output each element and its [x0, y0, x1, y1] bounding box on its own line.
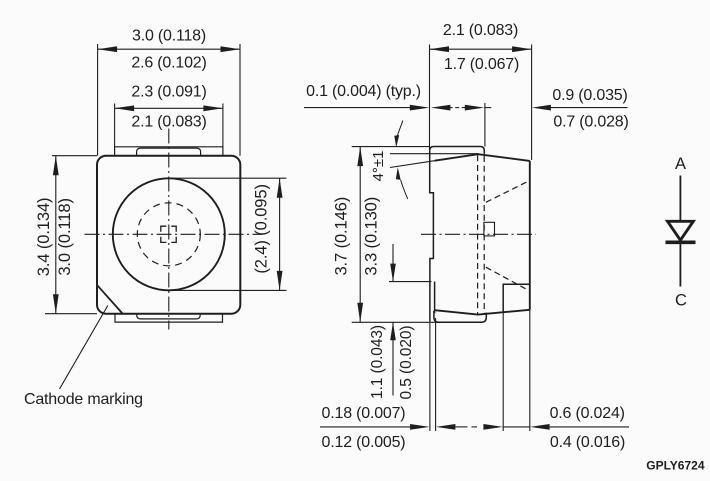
dimension 0.9/0.7: arrow and dimension line [532, 105, 628, 111]
dimension text 1.7 (0.067) side [444, 56, 519, 73]
svg-text:2.1 (0.083): 2.1 (0.083) [443, 22, 518, 39]
dimension text 0.12 (0.005) [322, 434, 406, 451]
svg-text:0.6 (0.024): 0.6 (0.024) [550, 405, 625, 422]
dimension text 0.1 (0.004) (typ.) [306, 83, 421, 100]
svg-text:0.5 (0.020): 0.5 (0.020) [398, 326, 415, 400]
side view: bottom face [435, 310, 530, 315]
svg-text:1.7 (0.067): 1.7 (0.067) [444, 56, 519, 73]
svg-text:2.1 (0.083): 2.1 (0.083) [131, 114, 206, 131]
diode symbol: anode lead wire [679, 176, 681, 221]
dimension 3.7/3.3 side: dimension line with arrows [357, 147, 363, 323]
document number GPLY6724 [646, 459, 705, 473]
svg-text:0.1 (0.004) (typ.): 0.1 (0.004) (typ.) [306, 83, 421, 100]
dimension text 3.4 (0.134) rotated [35, 198, 53, 277]
dimension (2.4) lens: dimension line with arrows [277, 178, 283, 290]
dimension 2.1/1.7 side: dimension line with arrows [430, 46, 532, 52]
side view: top band bottom edge / angle reference line [390, 153, 479, 155]
side view: hidden dashed diagonal bottom [486, 267, 528, 290]
dimension text 2.1 (0.083) side [443, 22, 518, 39]
leader line to cathode marking label [60, 306, 108, 390]
dimension text 3.0 (0.118) rotated [56, 198, 74, 275]
diode symbol: cathode lead wire [679, 243, 681, 287]
dimension 3.4/3.0 height: dimension line with arrows [53, 156, 59, 314]
dimension text 0.6 (0.024) [550, 405, 625, 422]
dimension 2.1/1.7 side: extension lines [430, 45, 532, 161]
side view: left face and lead profile [430, 151, 435, 322]
svg-text:2.3 (0.091): 2.3 (0.091) [131, 83, 206, 100]
front view: dashed inner circle [137, 203, 200, 266]
dimension 0.18/0.12: extension lines [430, 318, 436, 431]
svg-text:0.4 (0.016): 0.4 (0.016) [550, 434, 625, 451]
svg-text:A: A [675, 155, 686, 173]
diode symbol: anode label A [675, 155, 686, 173]
side view: top face roof [435, 154, 530, 161]
dimension text 0.5 (0.020) rotated [398, 326, 415, 400]
dimension 0.1 typ: dimension line and facing arrows [304, 105, 459, 111]
dimension 3.7/3.3 side: extension lines [352, 147, 451, 323]
dimension 3.4/3.0 height: extension lines [45, 156, 97, 314]
svg-text:GPLY6724: GPLY6724 [646, 459, 705, 473]
dimension 1.1/0.5: extension lines [389, 281, 432, 283]
front view: lens circle [113, 178, 225, 290]
dimension 3.0/2.6 width: dimension line with arrows [98, 46, 240, 52]
side view: horizontal centerline [421, 233, 536, 235]
dimension 0.6/0.4: outside arrows and dimension line [483, 424, 629, 430]
side view: bottom-right lead notch [503, 284, 530, 312]
svg-text:0.18 (0.007): 0.18 (0.007) [322, 405, 406, 422]
dimension text 0.4 (0.016) [550, 434, 625, 451]
front view: bottom lead bump [137, 314, 201, 319]
front view: cathode chamfer [97, 285, 122, 313]
side view: top lead band [430, 147, 485, 154]
dimension text 3.7 (0.146) rotated [333, 197, 351, 276]
label Cathode marking [24, 391, 143, 408]
front view: package body [97, 156, 240, 314]
front view: horizontal centerline [85, 233, 263, 235]
dimension 1.1/0.5: outside arrows [390, 244, 396, 396]
svg-text:3.7 (0.146): 3.7 (0.146) [333, 197, 351, 276]
dimension text 1.1 (0.043) rotated [369, 325, 386, 399]
svg-text:3.4 (0.134): 3.4 (0.134) [35, 198, 53, 277]
side view: hidden dashed line left [477, 155, 479, 313]
dimension text 2.1 (0.083) [131, 114, 206, 131]
dimension 0.18/0.12: dimension line with outside arrows [320, 424, 477, 430]
angle 4 deg: slope extension line [390, 161, 435, 168]
dimension text 0.9 (0.035) [552, 87, 627, 104]
dimension 2.3/2.1 width: dimension line with arrows [115, 105, 223, 111]
dimension text 3.0 (0.118) [132, 28, 206, 45]
svg-text:0.7 (0.028): 0.7 (0.028) [553, 114, 628, 131]
svg-text:0.9 (0.035): 0.9 (0.035) [552, 87, 627, 104]
front view: vertical centerline [168, 129, 170, 330]
angle 4 deg: lower leader arrow [396, 167, 408, 199]
front view: bottom lead tab [115, 314, 223, 322]
front view: top lead tab [115, 147, 223, 156]
svg-text:(2.4) (0.095): (2.4) (0.095) [253, 184, 271, 274]
dimension text 2.3 (0.091) [131, 83, 206, 100]
svg-text:C: C [675, 292, 687, 310]
dimension 2.3/2.1 width: extension lines [115, 104, 223, 147]
svg-text:4°±1: 4°±1 [370, 151, 387, 182]
dimension (2.4) lens: extension lines [167, 178, 287, 290]
svg-text:2.6 (0.102): 2.6 (0.102) [131, 55, 206, 72]
dimension text (2.4) (0.095) rotated [253, 184, 271, 274]
front view: center mark square [161, 226, 176, 242]
svg-text:3.3 (0.130): 3.3 (0.130) [362, 197, 380, 276]
svg-text:0.12 (0.005): 0.12 (0.005) [322, 434, 406, 451]
diode symbol: cathode label C [675, 292, 687, 310]
dimension text 3.3 (0.130) rotated [362, 197, 380, 276]
dimension 3.0/2.6 width: extension lines [98, 44, 240, 156]
front view: top lead bump [137, 148, 201, 156]
side view: hidden dashed line right [483, 156, 485, 314]
diode symbol: triangle [668, 221, 694, 240]
side view: hidden dashed diagonal top [486, 181, 528, 202]
side view: center mark square [484, 222, 495, 236]
svg-text:3.0 (0.118): 3.0 (0.118) [132, 28, 206, 45]
svg-text:Cathode marking: Cathode marking [24, 391, 143, 408]
svg-text:1.1 (0.043): 1.1 (0.043) [369, 325, 386, 399]
dimension text 0.18 (0.007) [322, 405, 406, 422]
dimension text 2.6 (0.102) [131, 55, 206, 72]
dimension 0.6/0.4: extension lines [503, 310, 530, 431]
diode symbol: cathode bar [666, 241, 696, 245]
dimension 1.7 right arrow and extension [462, 103, 492, 147]
side view: bottom lead band [434, 311, 486, 322]
angle text 4 deg plus minus 1 rotated [370, 151, 387, 182]
svg-text:3.0 (0.118): 3.0 (0.118) [56, 198, 74, 275]
angle 4 deg: upper leader arrow [394, 121, 403, 148]
dimension text 0.7 (0.028) [553, 114, 628, 131]
side view: right face [529, 161, 531, 310]
